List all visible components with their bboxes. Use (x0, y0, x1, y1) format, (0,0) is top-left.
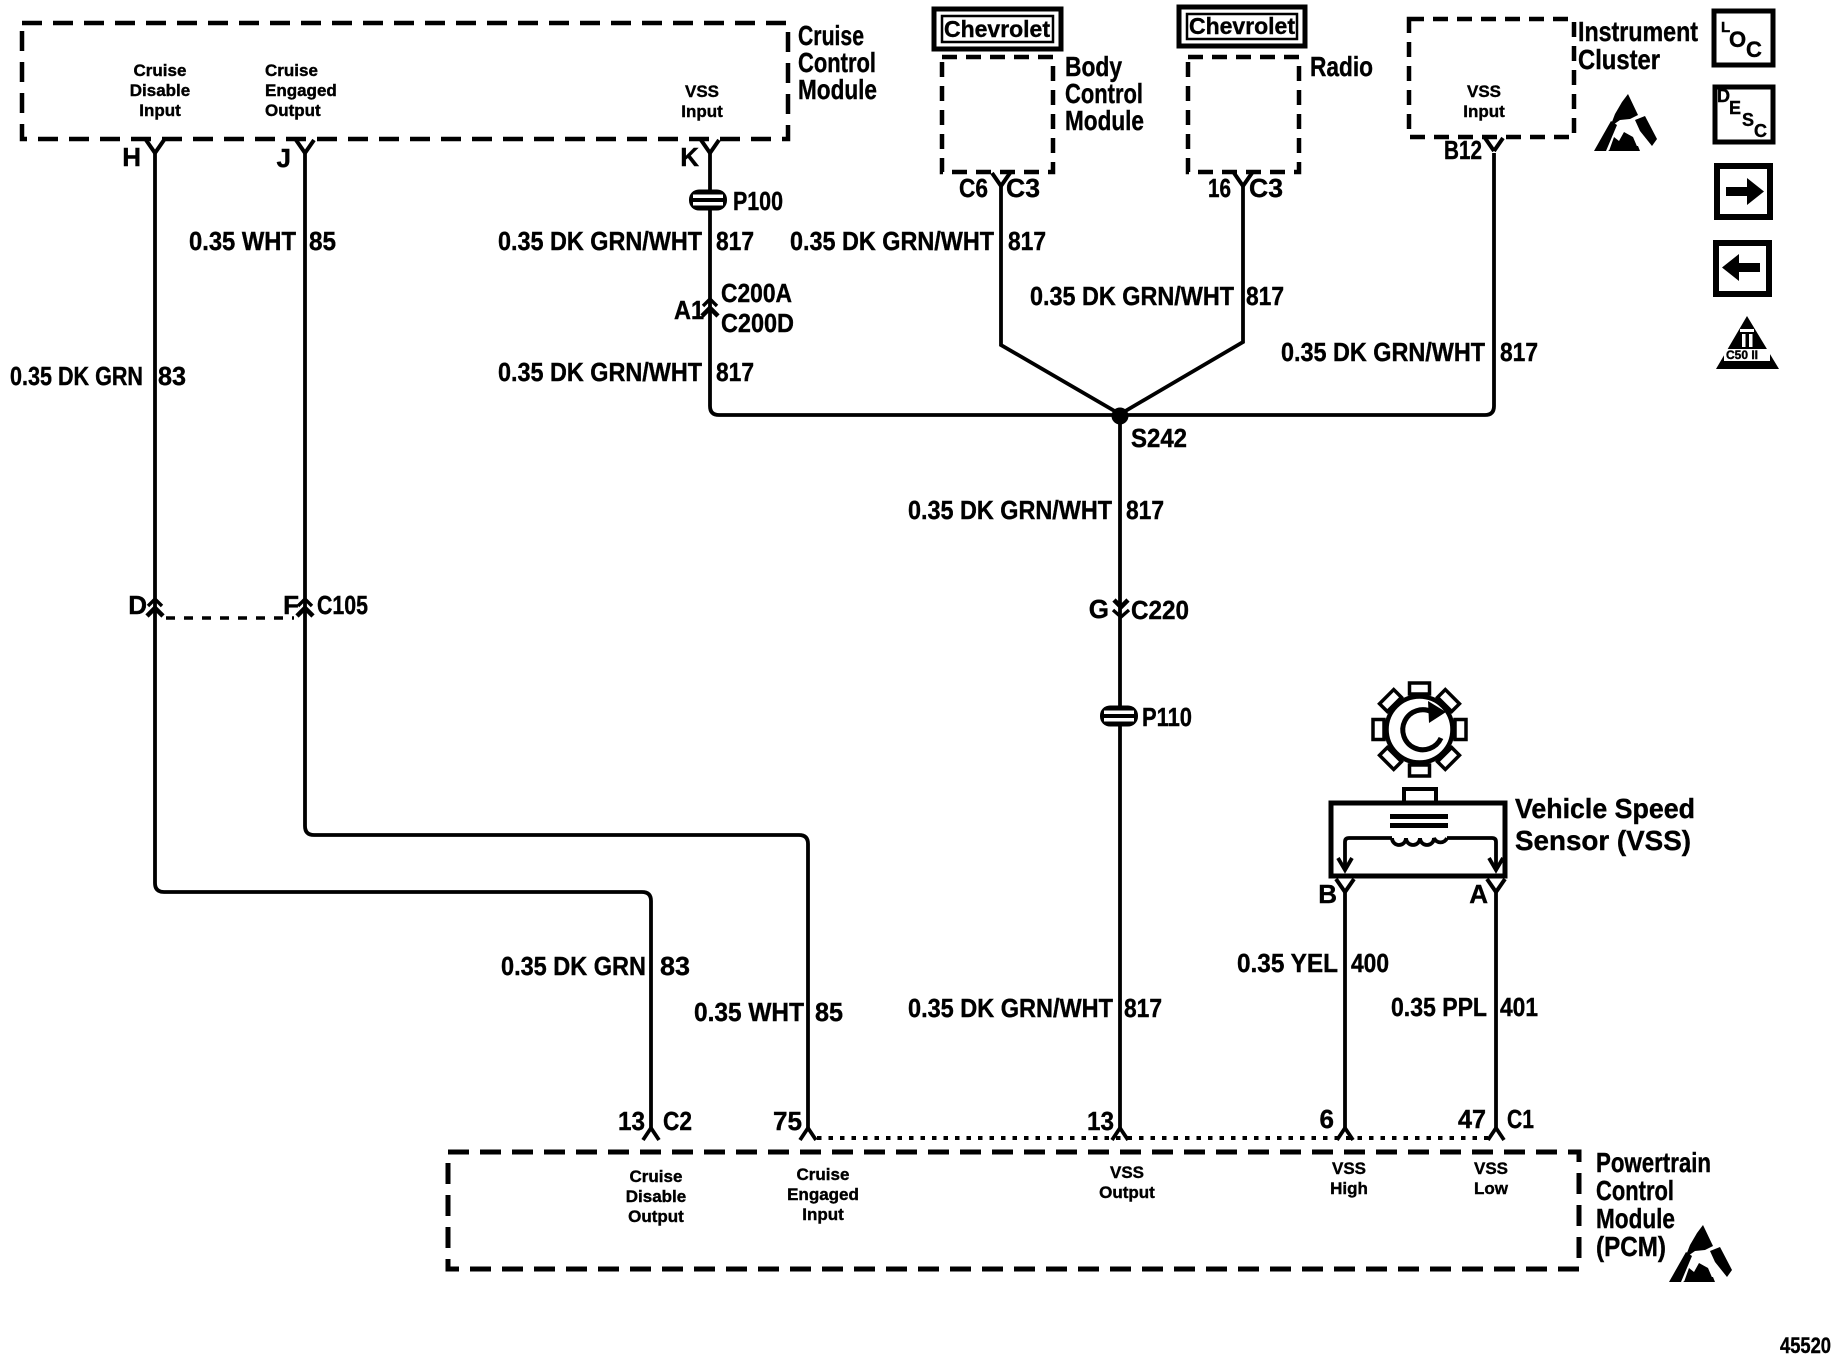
svg-text:83: 83 (158, 361, 186, 391)
wire radio 16 to splice S242 (1122, 186, 1243, 413)
svg-text:P100: P100 (733, 186, 783, 216)
icon arrow left (1716, 243, 1769, 294)
svg-text:16: 16 (1208, 173, 1231, 203)
svg-text:B: B (1318, 879, 1337, 909)
svg-text:VSS: VSS (1110, 1163, 1144, 1182)
svg-text:400: 400 (1351, 948, 1389, 978)
svg-text:Chevrolet: Chevrolet (944, 16, 1050, 42)
svg-text:Module: Module (1065, 105, 1144, 136)
svg-text:0.35 DK GRN: 0.35 DK GRN (10, 361, 143, 391)
label 0.35 YEL 400 (1237, 948, 1389, 978)
svg-text:Low: Low (1474, 1179, 1509, 1198)
wire VSS A to PCM pin 47 (1494, 892, 1498, 1128)
svg-text:0.35 DK GRN/WHT: 0.35 DK GRN/WHT (1030, 281, 1234, 311)
svg-text:S: S (1742, 110, 1754, 130)
svg-text:817: 817 (1126, 495, 1164, 525)
inline connector C220 pin G (1089, 594, 1189, 625)
svg-text:P110: P110 (1142, 702, 1192, 732)
svg-text:Output: Output (265, 101, 321, 120)
svg-text:Chevrolet: Chevrolet (1189, 13, 1295, 39)
svg-text:45520: 45520 (1780, 1333, 1831, 1358)
dotted bus from pin 75 to pin C1 (817, 1136, 1488, 1140)
svg-text:Cluster: Cluster (1578, 44, 1660, 75)
svg-text:G: G (1089, 594, 1109, 624)
svg-text:Disable: Disable (130, 81, 190, 100)
svg-text:Module: Module (1596, 1203, 1675, 1234)
svg-text:Input: Input (681, 102, 723, 121)
svg-text:0.35 DK GRN/WHT: 0.35 DK GRN/WHT (1281, 337, 1485, 367)
svg-text:0.35 WHT: 0.35 WHT (694, 997, 804, 1027)
svg-text:C220: C220 (1131, 595, 1189, 625)
svg-text:Cruise: Cruise (134, 61, 187, 80)
svg-text:83: 83 (660, 951, 690, 981)
label 0.35 DK GRN/WHT 817 (radio wire) (1030, 281, 1284, 311)
svg-text:817: 817 (1246, 281, 1284, 311)
icon arrow right (1717, 166, 1770, 217)
wire K: VSS input, down then right to B12 riser (710, 153, 1494, 415)
svg-text:O: O (1729, 27, 1746, 52)
wire J: cruise engaged output to PCM 75 (305, 153, 808, 1128)
connector C200A/C200D pin A1 (674, 278, 794, 338)
svg-text:75: 75 (773, 1106, 802, 1136)
label 0.35 DK GRN/WHT 817 (K upper) (498, 226, 754, 256)
label 0.35 DK GRN/WHT 817 (BCM wire) (790, 226, 1046, 256)
pin A (VSS) (1469, 879, 1505, 909)
label 0.35 DK GRN/WHT 817 (B12 wire) (1281, 337, 1538, 367)
svg-text:C200A: C200A (721, 278, 792, 308)
label 0.35 DK GRN/WHT 817 (below S242) (908, 495, 1164, 525)
radio Chevrolet badge (1179, 7, 1305, 46)
svg-text:K: K (680, 142, 699, 172)
svg-text:Input: Input (139, 101, 181, 120)
vehicle speed sensor gear icon (1354, 664, 1486, 796)
wire S242 to PCM pin 13 (VSS output) (1118, 420, 1122, 1128)
pin 16 of C3 (radio) (1208, 173, 1283, 203)
svg-text:Output: Output (628, 1207, 684, 1226)
svg-text:Cruise: Cruise (265, 61, 318, 80)
icon LOC (1714, 11, 1773, 65)
inline connector C105 pins D and F (128, 590, 368, 620)
svg-text:Module: Module (798, 74, 877, 105)
svg-text:13: 13 (618, 1106, 645, 1136)
PCM pin 6 (1320, 1104, 1353, 1140)
svg-text:VSS: VSS (685, 82, 719, 101)
PCM pin 47 C1 (1458, 1104, 1534, 1140)
svg-text:C2: C2 (663, 1106, 692, 1136)
svg-text:Cruise: Cruise (630, 1167, 683, 1186)
pin C6 of C3 (BCM) (959, 173, 1040, 203)
svg-text:Disable: Disable (626, 1187, 686, 1206)
svg-text:47: 47 (1458, 1104, 1486, 1134)
svg-text:Sensor (VSS): Sensor (VSS) (1515, 825, 1691, 856)
label 0.35 DK GRN 83 (H) (10, 361, 186, 391)
svg-text:Input: Input (1463, 102, 1505, 121)
svg-text:A1: A1 (674, 295, 704, 325)
svg-text:H: H (122, 142, 141, 172)
svg-text:VSS: VSS (1467, 82, 1501, 101)
svg-text:C1: C1 (1507, 1104, 1534, 1134)
svg-text:A: A (1469, 879, 1488, 909)
svg-text:C200D: C200D (721, 308, 794, 338)
connector P100 (689, 186, 783, 216)
svg-text:0.35 DK GRN/WHT: 0.35 DK GRN/WHT (908, 495, 1112, 525)
powertrain control module label (1596, 1147, 1711, 1262)
pin B12 (instrument cluster) (1444, 135, 1503, 165)
vehicle speed sensor body (1331, 789, 1695, 876)
PCM pin 75 (773, 1106, 816, 1140)
instrument cluster dashed box (1409, 16, 1698, 137)
svg-text:0.35 WHT: 0.35 WHT (189, 226, 296, 256)
label 0.35 WHT 85 (J lower) (694, 997, 843, 1027)
svg-text:Radio: Radio (1310, 51, 1373, 82)
powertrain control module dashed box (448, 1152, 1579, 1269)
svg-text:0.35 DK GRN: 0.35 DK GRN (501, 951, 646, 981)
svg-text:0.35 PPL: 0.35 PPL (1391, 992, 1487, 1022)
body control module Chevrolet badge (934, 9, 1061, 49)
svg-text:0.35 DK GRN/WHT: 0.35 DK GRN/WHT (790, 226, 994, 256)
svg-text:Output: Output (1099, 1183, 1155, 1202)
svg-text:817: 817 (716, 226, 754, 256)
svg-text:C3: C3 (1249, 173, 1283, 203)
svg-text:401: 401 (1500, 992, 1538, 1022)
svg-text:C: C (1754, 121, 1767, 141)
pin H (122, 140, 164, 172)
svg-text:0.35 DK GRN/WHT: 0.35 DK GRN/WHT (908, 993, 1113, 1023)
svg-text:C3: C3 (1006, 173, 1040, 203)
pin B (VSS) (1318, 879, 1354, 909)
svg-text:817: 817 (1008, 226, 1046, 256)
svg-text:0.35 DK GRN/WHT: 0.35 DK GRN/WHT (498, 226, 702, 256)
svg-text:Cruise: Cruise (797, 1165, 850, 1184)
svg-text:C50 II: C50 II (1726, 348, 1758, 362)
svg-text:S242: S242 (1131, 423, 1187, 453)
PCM pin 13 (VSS output) (1087, 1106, 1128, 1140)
svg-text:Control: Control (1596, 1175, 1674, 1206)
svg-text:J: J (277, 143, 291, 173)
body control module dashed box (942, 51, 1144, 172)
splice S242 (1112, 408, 1188, 454)
svg-text:Engaged: Engaged (787, 1185, 859, 1204)
icon warning triangle (1716, 316, 1779, 369)
svg-text:VSS: VSS (1474, 1159, 1508, 1178)
svg-text:Input: Input (802, 1205, 844, 1224)
PCM pin 13 C2 (618, 1106, 692, 1140)
svg-text:C6: C6 (959, 173, 988, 203)
label 0.35 DK GRN 83 (H lower) (501, 951, 690, 981)
svg-text:85: 85 (815, 997, 843, 1027)
wire VSS B to PCM pin 6 (1343, 892, 1347, 1128)
svg-text:B12: B12 (1444, 135, 1482, 165)
svg-text:C: C (1746, 37, 1762, 62)
svg-text:C105: C105 (317, 590, 368, 620)
svg-text:VSS: VSS (1332, 1159, 1366, 1178)
svg-text:Vehicle Speed: Vehicle Speed (1515, 793, 1695, 824)
pin K (680, 140, 719, 172)
svg-text:Instrument: Instrument (1578, 16, 1698, 47)
svg-text:D: D (128, 590, 147, 620)
svg-text:817: 817 (1124, 993, 1162, 1023)
pin J (277, 140, 314, 173)
svg-text:Powertrain: Powertrain (1596, 1147, 1711, 1178)
svg-text:(PCM): (PCM) (1596, 1231, 1666, 1262)
svg-text:0.35 YEL: 0.35 YEL (1237, 948, 1338, 978)
label 0.35 DK GRN/WHT 817 (K lower) (498, 357, 754, 387)
radio dashed box (1188, 51, 1373, 172)
ESD symbol (PCM) (1669, 1225, 1732, 1282)
svg-text:13: 13 (1087, 1106, 1114, 1136)
label 0.35 PPL 401 (1391, 992, 1538, 1022)
wire H: cruise disable input to PCM 13 C2 (155, 153, 651, 1128)
svg-text:817: 817 (1500, 337, 1538, 367)
label 0.35 DK GRN/WHT 817 (center lower) (908, 993, 1162, 1023)
cruise control module box (22, 20, 877, 139)
svg-text:High: High (1330, 1179, 1368, 1198)
svg-text:0.35 DK GRN/WHT: 0.35 DK GRN/WHT (498, 357, 702, 387)
svg-text:85: 85 (309, 226, 336, 256)
svg-text:817: 817 (716, 357, 754, 387)
label 0.35 WHT 85 (J) (189, 226, 336, 256)
svg-text:Engaged: Engaged (265, 81, 337, 100)
icon DESC (1715, 86, 1773, 142)
connector P110 (1100, 702, 1192, 732)
wire BCM C6 to splice S242 (1001, 186, 1118, 413)
svg-text:6: 6 (1320, 1104, 1334, 1134)
svg-text:E: E (1729, 98, 1741, 118)
